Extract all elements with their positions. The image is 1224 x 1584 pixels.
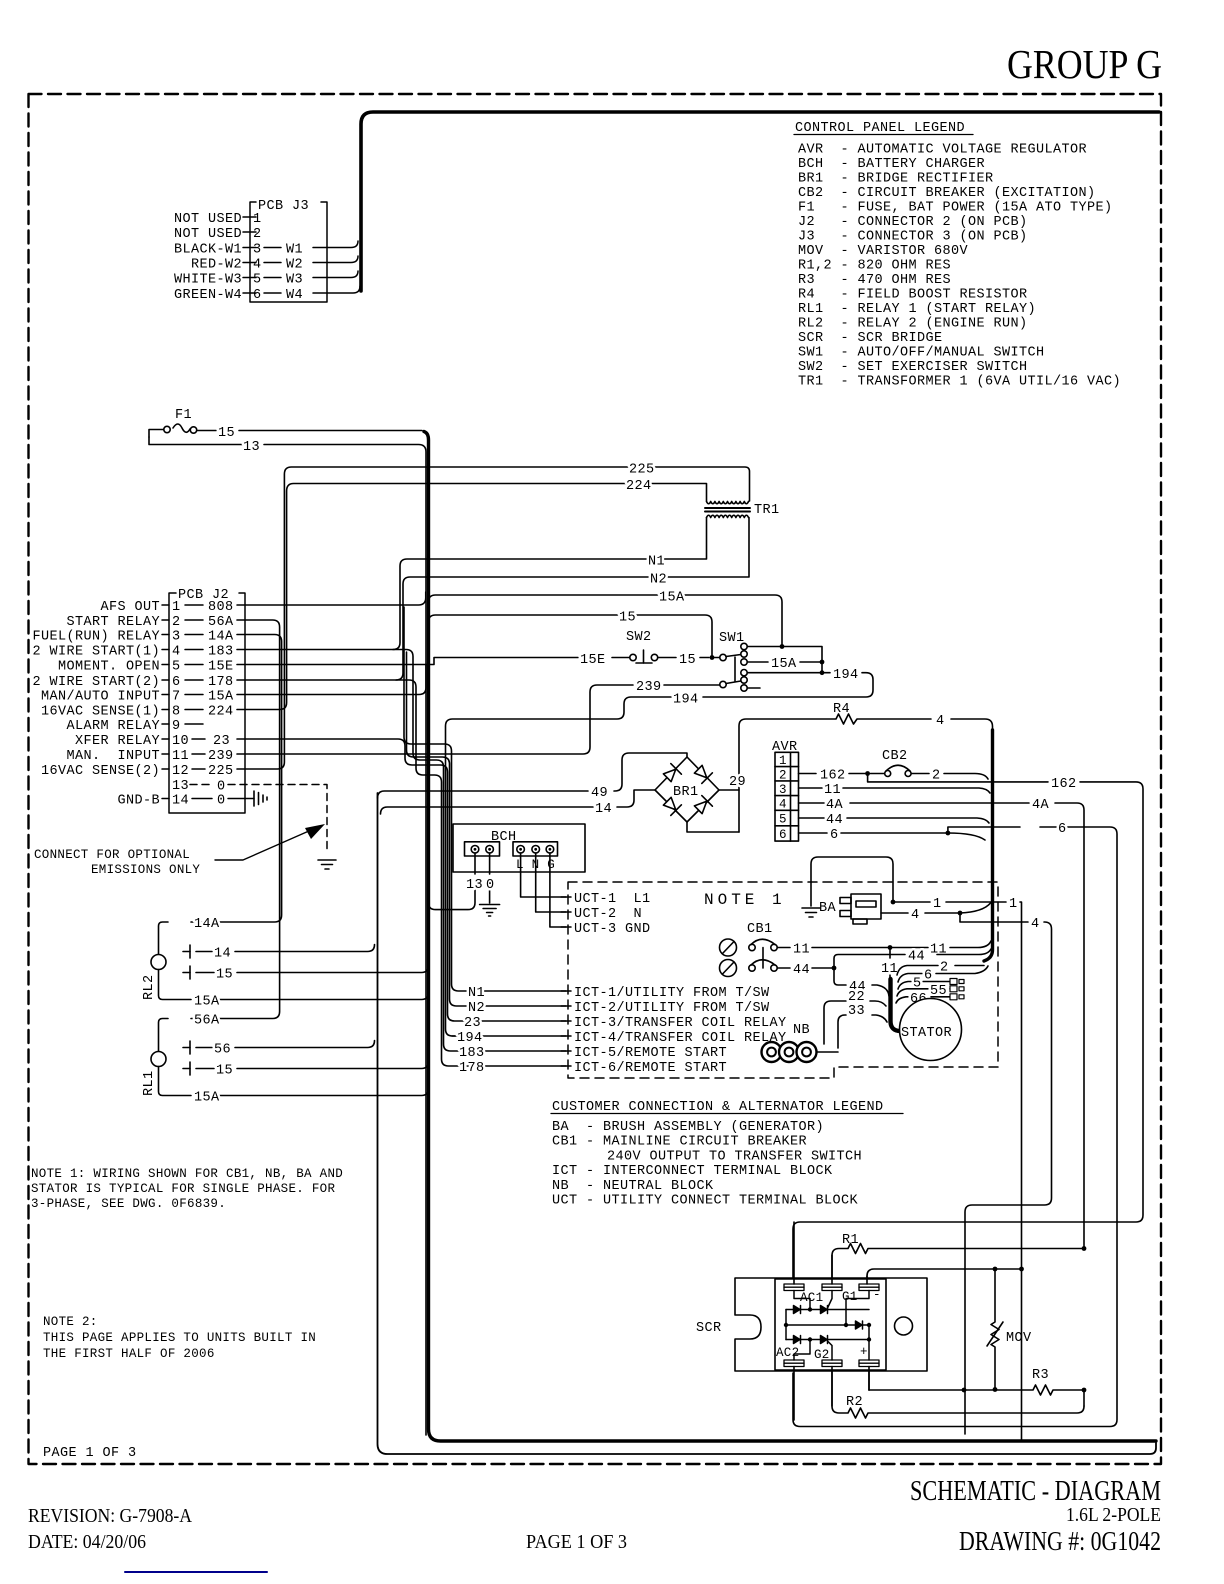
svg-text:4A: 4A bbox=[826, 798, 844, 813]
connector PCB J3 bbox=[174, 199, 327, 303]
wire BR1 bottom to 29 bbox=[687, 822, 739, 832]
svg-text:G1: G1 bbox=[842, 1290, 858, 1304]
svg-text:BCH - BATTERY CHARGER: BCH - BATTERY CHARGER bbox=[798, 157, 985, 172]
SCR pad labels bbox=[776, 1288, 881, 1362]
dashed wire 0 from J2 pin 13 bbox=[190, 780, 327, 853]
svg-text:UCT - UTILITY CONNECT TERMINAL: UCT - UTILITY CONNECT TERMINAL BLOCK bbox=[552, 1194, 859, 1209]
svg-text:BA - BRUSH ASSEMBLY (GENERATO: BA - BRUSH ASSEMBLY (GENERATOR) bbox=[552, 1120, 824, 1135]
svg-text:BLACK-W1: BLACK-W1 bbox=[174, 243, 242, 258]
svg-text:194: 194 bbox=[673, 693, 699, 708]
note 1 label bbox=[704, 891, 786, 909]
svg-text:NOT USED: NOT USED bbox=[174, 212, 242, 227]
svg-text:23: 23 bbox=[464, 1016, 481, 1031]
wire 178 J2 pin6 to ICT-6 bbox=[237, 680, 566, 1076]
svg-text:11: 11 bbox=[881, 962, 898, 977]
SCR internal bridge bbox=[784, 1291, 871, 1361]
svg-text:15: 15 bbox=[218, 426, 235, 441]
svg-text:MOV: MOV bbox=[1006, 1331, 1032, 1346]
fuse F1 bbox=[149, 408, 197, 437]
wire 6 AVR pin6 bbox=[793, 822, 1117, 1427]
svg-text:2 WIRE START(1): 2 WIRE START(1) bbox=[32, 645, 160, 660]
svg-text:14: 14 bbox=[172, 794, 189, 809]
svg-text:4: 4 bbox=[253, 258, 262, 273]
svg-text:TR1: TR1 bbox=[754, 503, 780, 518]
svg-text:START RELAY: START RELAY bbox=[66, 615, 160, 630]
svg-text:14: 14 bbox=[214, 947, 231, 962]
switch SW2 bbox=[626, 630, 709, 668]
svg-text:15A: 15A bbox=[194, 1091, 220, 1106]
svg-text:240V OUTPUT TO TRANSFER SWITCH: 240V OUTPUT TO TRANSFER SWITCH bbox=[607, 1149, 862, 1164]
svg-text:15A: 15A bbox=[771, 657, 797, 672]
wire G2 lead down bbox=[831, 1367, 833, 1407]
wire 22 stator to NB bbox=[824, 990, 886, 1044]
wire W1 bbox=[313, 241, 358, 248]
svg-text:1: 1 bbox=[933, 897, 942, 912]
svg-text:4: 4 bbox=[1031, 917, 1040, 932]
svg-text:ICT - INTERCONNECT TERMINAL BL: ICT - INTERCONNECT TERMINAL BLOCK bbox=[552, 1164, 833, 1179]
terminal ICT-4 bbox=[561, 1031, 787, 1046]
svg-text:3: 3 bbox=[253, 243, 262, 258]
svg-text:14: 14 bbox=[595, 802, 612, 817]
wire 23 J2 pin10 to ICT-3 bbox=[237, 739, 566, 1031]
svg-text:THE FIRST HALF OF 2006: THE FIRST HALF OF 2006 bbox=[43, 1347, 215, 1361]
footer text SCHEMATIC - DIAGRAM bbox=[910, 1476, 1161, 1507]
wire 194 SW1 row4 loop bbox=[446, 668, 874, 1036]
wire W2 bbox=[313, 256, 358, 263]
svg-text:SCR - SCR BRIDGE: SCR - SCR BRIDGE bbox=[798, 331, 943, 346]
svg-text:0: 0 bbox=[217, 794, 226, 809]
svg-text:ICT-5/REMOTE START: ICT-5/REMOTE START bbox=[574, 1046, 727, 1061]
svg-text:RED-W2: RED-W2 bbox=[191, 258, 242, 273]
svg-text:162: 162 bbox=[1051, 777, 1077, 792]
wire 66 stator to plug bbox=[896, 992, 950, 1007]
wire 15E J2 pin5 to SW2 bbox=[237, 653, 629, 668]
svg-text:ICT-1/UTILITY FROM T/SW: ICT-1/UTILITY FROM T/SW bbox=[574, 986, 770, 1001]
svg-text:NB - NEUTRAL BLOCK: NB - NEUTRAL BLOCK bbox=[552, 1179, 714, 1194]
page title GROUP G bbox=[1007, 41, 1162, 87]
wire L to UCT-1 bbox=[521, 853, 566, 897]
wire 49 to BR1 top bbox=[378, 753, 688, 801]
svg-text:15: 15 bbox=[679, 653, 696, 668]
svg-text:239: 239 bbox=[208, 749, 234, 764]
terminal ICT-6 bbox=[561, 1061, 727, 1076]
breaker CB1 bbox=[720, 922, 778, 977]
svg-text:194: 194 bbox=[457, 1031, 483, 1046]
svg-text:R3: R3 bbox=[1032, 1368, 1049, 1383]
svg-text:F1 - FUSE, BAT POWER (15A AT: F1 - FUSE, BAT POWER (15A ATO TYPE) bbox=[798, 201, 1113, 216]
svg-text:SW2: SW2 bbox=[626, 630, 652, 645]
svg-text:5: 5 bbox=[253, 273, 262, 288]
svg-text:R4 - FIELD BOOST RESISTOR: R4 - FIELD BOOST RESISTOR bbox=[798, 288, 1028, 303]
svg-text:13: 13 bbox=[466, 878, 483, 893]
svg-text:CB1: CB1 bbox=[747, 922, 773, 937]
svg-text:+: + bbox=[860, 1345, 868, 1359]
svg-text:11: 11 bbox=[172, 749, 189, 764]
bridge rectifier BR1 bbox=[655, 757, 719, 822]
svg-text:RL2: RL2 bbox=[142, 974, 157, 1000]
svg-text:EMISSIONS ONLY: EMISSIONS ONLY bbox=[91, 863, 200, 877]
terminal ICT-5 bbox=[561, 1046, 727, 1061]
svg-text:0: 0 bbox=[486, 878, 495, 893]
svg-text:5: 5 bbox=[779, 813, 787, 827]
svg-text:44: 44 bbox=[908, 950, 925, 965]
svg-text:3: 3 bbox=[779, 783, 787, 797]
svg-text:14A: 14A bbox=[194, 917, 220, 932]
transformer TR1 bbox=[705, 502, 780, 519]
wire minus lead up bbox=[866, 1276, 868, 1284]
wire 6 stator bbox=[898, 966, 988, 984]
svg-text:MOV - VARISTOR 680V: MOV - VARISTOR 680V bbox=[798, 244, 969, 259]
svg-text:AFS OUT: AFS OUT bbox=[100, 600, 160, 615]
terminal UCT-3 bbox=[561, 922, 651, 937]
svg-text:5: 5 bbox=[172, 660, 181, 675]
wire 44 tee down to stator bbox=[834, 968, 889, 996]
wire 14A J2 pin3 to RL2 bbox=[159, 635, 282, 955]
footer text PAGE 1 OF 3 bbox=[526, 1531, 627, 1553]
svg-text:ICT-4/TRANSFER COIL RELAY: ICT-4/TRANSFER COIL RELAY bbox=[574, 1031, 787, 1046]
svg-text:1: 1 bbox=[1009, 897, 1018, 912]
wire 183 J2 pin4 branch to ICT-5 bbox=[237, 650, 566, 1062]
svg-text:6: 6 bbox=[1058, 822, 1067, 837]
svg-text:GND-B: GND-B bbox=[117, 794, 160, 809]
relay coil RL1 bbox=[142, 1052, 166, 1097]
wire 15A J2 pin7 to bus bbox=[237, 664, 426, 695]
wire 4A AVR pin4 bbox=[799, 798, 1085, 1249]
svg-text:ALARM RELAY: ALARM RELAY bbox=[66, 719, 160, 734]
svg-text:33: 33 bbox=[848, 1004, 865, 1019]
svg-text:3: 3 bbox=[172, 630, 181, 645]
wire 11 CB1 to bundle bbox=[778, 941, 992, 958]
svg-text:RL1: RL1 bbox=[142, 1070, 157, 1096]
svg-text:SW1 - AUTO/OFF/MANUAL SWITCH: SW1 - AUTO/OFF/MANUAL SWITCH bbox=[798, 346, 1045, 361]
wire 33 stator to NB bbox=[838, 1004, 887, 1048]
svg-text:2: 2 bbox=[253, 227, 262, 242]
svg-text:6: 6 bbox=[172, 675, 181, 690]
svg-text:NOTE 1: WIRING SHOWN FOR CB1,: NOTE 1: WIRING SHOWN FOR CB1, NB, BA AND bbox=[31, 1167, 343, 1181]
svg-text:MOMENT. OPEN: MOMENT. OPEN bbox=[58, 660, 160, 675]
resistor R1 bbox=[832, 1233, 1086, 1283]
wire 15 bus to SW1 bbox=[429, 611, 713, 656]
wire 224 bbox=[237, 479, 707, 710]
svg-text:REVISION: G-7908-A: REVISION: G-7908-A bbox=[28, 1505, 192, 1527]
wire G1 lead up bbox=[831, 1255, 833, 1284]
svg-text:13: 13 bbox=[172, 779, 189, 794]
ground optional emissions bbox=[318, 860, 336, 869]
SCR terminal lugs bottom bbox=[784, 1360, 879, 1367]
svg-text:49: 49 bbox=[591, 786, 608, 801]
sheet note PAGE 1 OF 3 bbox=[43, 1446, 137, 1461]
svg-text:CB1 - MAINLINE CIRCUIT BREAKER: CB1 - MAINLINE CIRCUIT BREAKER bbox=[552, 1135, 807, 1150]
svg-text:16VAC SENSE(2): 16VAC SENSE(2) bbox=[41, 764, 160, 779]
svg-text:1: 1 bbox=[253, 212, 262, 227]
svg-text:R3 - 470 OHM RES: R3 - 470 OHM RES bbox=[798, 273, 951, 288]
svg-text:CONNECT FOR OPTIONAL: CONNECT FOR OPTIONAL bbox=[34, 848, 190, 862]
svg-text:CB2: CB2 bbox=[882, 749, 908, 764]
wire BR1 right to 29 bbox=[719, 775, 746, 790]
footer text REVISION: G-7908-A bbox=[28, 1505, 192, 1527]
svg-text:56A: 56A bbox=[194, 1014, 220, 1029]
svg-text:MAN. INPUT: MAN. INPUT bbox=[66, 749, 160, 764]
wire AC1 lead up bbox=[793, 1222, 795, 1284]
wire 15A RL1 coil to bus bbox=[159, 1067, 429, 1106]
svg-text:224: 224 bbox=[626, 479, 652, 494]
svg-text:1: 1 bbox=[779, 754, 787, 768]
resistor R4 bbox=[739, 702, 993, 832]
svg-text:W1: W1 bbox=[286, 243, 303, 258]
svg-text:DRAWING #: 0G1042: DRAWING #: 0G1042 bbox=[959, 1526, 1161, 1556]
svg-text:AC2: AC2 bbox=[776, 1346, 799, 1360]
breaker CB2 bbox=[871, 749, 989, 784]
terminal UCT-1 bbox=[561, 892, 651, 907]
terminal ICT-2 bbox=[561, 1001, 770, 1016]
wire 2 stator to bundle bbox=[897, 961, 984, 976]
SCR module box bbox=[775, 1279, 886, 1370]
wire AC2 lead down bbox=[793, 1367, 795, 1421]
svg-text:XFER RELAY: XFER RELAY bbox=[75, 734, 160, 749]
svg-text:N2: N2 bbox=[650, 573, 667, 588]
svg-text:R1,2 - 820 OHM RES: R1,2 - 820 OHM RES bbox=[798, 259, 951, 274]
svg-text:56: 56 bbox=[214, 1043, 231, 1058]
wire plus lead down bbox=[868, 1367, 870, 1391]
wire N2 bbox=[396, 518, 749, 681]
svg-text:W4: W4 bbox=[286, 288, 303, 303]
svg-text:MAN/AUTO INPUT: MAN/AUTO INPUT bbox=[41, 690, 160, 705]
svg-text:15: 15 bbox=[619, 611, 636, 626]
svg-text:N1: N1 bbox=[468, 986, 485, 1001]
svg-text:194: 194 bbox=[833, 668, 859, 683]
wire 55 stator to plug bbox=[897, 984, 950, 999]
battery charger BCH bbox=[453, 824, 585, 872]
svg-text:UCT-3 GND: UCT-3 GND bbox=[574, 922, 651, 937]
svg-text:W3: W3 bbox=[286, 273, 303, 288]
svg-text:THIS PAGE APPLIES TO UNITS BUI: THIS PAGE APPLIES TO UNITS BUILT IN bbox=[43, 1331, 316, 1345]
svg-text:0: 0 bbox=[217, 780, 226, 795]
svg-text:44: 44 bbox=[793, 963, 810, 978]
note 1 text bbox=[31, 1167, 343, 1211]
wire bottom thick bus bbox=[424, 432, 1156, 1442]
plug terminal 5 bbox=[950, 979, 964, 985]
svg-text:15E: 15E bbox=[580, 653, 606, 668]
svg-text:6: 6 bbox=[253, 288, 262, 303]
note connect for optional emissions only with arrow bbox=[34, 824, 325, 877]
svg-text:162: 162 bbox=[820, 769, 846, 784]
svg-text:PCB J3: PCB J3 bbox=[258, 199, 309, 214]
svg-text:CB2 - CIRCUIT BREAKER (EXCITA: CB2 - CIRCUIT BREAKER (EXCITATION) bbox=[798, 186, 1096, 201]
resistor R2 bbox=[832, 1367, 1084, 1418]
svg-text:F1: F1 bbox=[175, 408, 192, 423]
svg-text:WHITE-W3: WHITE-W3 bbox=[174, 273, 242, 288]
terminal ICT-3 bbox=[561, 1016, 787, 1031]
wire 44 CB1 lower bbox=[778, 963, 837, 978]
footer blue rule bbox=[125, 1571, 267, 1573]
svg-text:6: 6 bbox=[830, 828, 839, 843]
svg-text:224: 224 bbox=[208, 705, 234, 720]
svg-text:11: 11 bbox=[793, 943, 810, 958]
svg-text:AVR - AUTOMATIC VOLTAGE REGUL: AVR - AUTOMATIC VOLTAGE REGULATOR bbox=[798, 143, 1087, 158]
svg-text:8: 8 bbox=[172, 705, 181, 720]
svg-text:SW2 - SET EXERCISER SWITCH: SW2 - SET EXERCISER SWITCH bbox=[798, 360, 1028, 375]
svg-text:RL2 - RELAY 2 (ENGINE RUN): RL2 - RELAY 2 (ENGINE RUN) bbox=[798, 317, 1028, 332]
svg-text:ICT-3/TRANSFER COIL RELAY: ICT-3/TRANSFER COIL RELAY bbox=[574, 1016, 787, 1031]
svg-text:CONTROL PANEL LEGEND: CONTROL PANEL LEGEND bbox=[795, 121, 965, 136]
svg-text:56A: 56A bbox=[208, 615, 234, 630]
stator circle bbox=[900, 999, 962, 1061]
wire 5 stator to plug bbox=[898, 977, 950, 992]
SCR terminal lugs top bbox=[784, 1284, 879, 1291]
svg-text:1: 1 bbox=[172, 600, 181, 615]
connector AVR bbox=[772, 740, 799, 842]
svg-text:RL1 - RELAY 1 (START RELAY): RL1 - RELAY 1 (START RELAY) bbox=[798, 302, 1036, 317]
right bundle thick vertical bbox=[984, 730, 993, 961]
svg-text:PAGE 1 OF 3: PAGE 1 OF 3 bbox=[43, 1446, 137, 1461]
wire 162 branch down from CB2 dot bbox=[793, 774, 1143, 1284]
svg-text:NOTE 1: NOTE 1 bbox=[704, 891, 786, 909]
wire bottom thin return bbox=[378, 793, 1157, 1454]
switch SW1 bbox=[719, 631, 760, 691]
svg-text:J2 - CONNECTOR 2 (ON PCB): J2 - CONNECTOR 2 (ON PCB) bbox=[798, 215, 1028, 230]
svg-text:4A: 4A bbox=[1032, 798, 1050, 813]
plug terminal 55 bbox=[950, 986, 964, 992]
svg-text:NOT USED: NOT USED bbox=[174, 227, 242, 242]
varistor MOV bbox=[987, 1269, 1032, 1392]
svg-text:GREEN-W4: GREEN-W4 bbox=[174, 288, 242, 303]
svg-text:FUEL(RUN) RELAY: FUEL(RUN) RELAY bbox=[32, 630, 160, 645]
neutral block NB bbox=[762, 1023, 839, 1062]
relay contact RL2 15 bbox=[183, 966, 429, 983]
SCR plate outline bbox=[696, 1278, 927, 1371]
svg-text:CUSTOMER CONNECTION & ALTERNAT: CUSTOMER CONNECTION & ALTERNATOR LEGEND bbox=[552, 1100, 884, 1115]
wire 0 BCH to ground bbox=[480, 853, 500, 916]
svg-text:4: 4 bbox=[911, 908, 920, 923]
wire 56A J2 pin2 to RL1 bbox=[159, 620, 280, 1052]
svg-text:BR1 - BRIDGE RECTIFIER: BR1 - BRIDGE RECTIFIER bbox=[798, 172, 994, 187]
wire 13 BCH to bus bbox=[429, 853, 484, 910]
svg-text:29: 29 bbox=[729, 775, 746, 790]
wire 44 AVR pin5 bbox=[799, 813, 990, 828]
svg-text:6: 6 bbox=[779, 828, 787, 842]
svg-text:239: 239 bbox=[636, 680, 662, 695]
svg-text:15A: 15A bbox=[659, 591, 685, 606]
svg-text:BR1: BR1 bbox=[673, 785, 699, 800]
svg-text:J3 - CONNECTOR 3 (ON PCB): J3 - CONNECTOR 3 (ON PCB) bbox=[798, 230, 1028, 245]
svg-text:BA: BA bbox=[819, 901, 837, 916]
wire 13 from F1 bbox=[149, 437, 426, 1435]
svg-text:15A: 15A bbox=[208, 690, 234, 705]
svg-text:-: - bbox=[873, 1288, 881, 1302]
terminal ICT-1 bbox=[561, 986, 770, 1001]
wire N1 bbox=[393, 518, 707, 650]
resistor R3 bbox=[869, 1367, 1086, 1406]
svg-text:N2: N2 bbox=[468, 1001, 485, 1016]
svg-text:W2: W2 bbox=[286, 258, 303, 273]
svg-text:R1: R1 bbox=[842, 1233, 859, 1248]
svg-text:15: 15 bbox=[216, 1064, 233, 1079]
svg-text:NB: NB bbox=[793, 1023, 810, 1038]
svg-text:12: 12 bbox=[172, 764, 189, 779]
svg-text:NOTE 2:: NOTE 2: bbox=[43, 1315, 98, 1329]
wire 11 AVR pin3 bbox=[799, 783, 991, 798]
wire W3 bbox=[313, 271, 358, 278]
svg-text:4: 4 bbox=[172, 645, 181, 660]
svg-text:DATE: 04/20/06: DATE: 04/20/06 bbox=[28, 1531, 146, 1553]
svg-text:TR1 - TRANSFORMER 1 (6VA UTIL: TR1 - TRANSFORMER 1 (6VA UTIL/16 VAC) bbox=[798, 375, 1121, 390]
wire 194 to ICT-4 label bbox=[452, 1031, 566, 1046]
relay coil RL2 bbox=[142, 955, 166, 1001]
svg-text:9: 9 bbox=[172, 719, 181, 734]
svg-text:178: 178 bbox=[208, 675, 234, 690]
svg-text:16VAC SENSE(1): 16VAC SENSE(1) bbox=[41, 705, 160, 720]
stator winding lead bbox=[881, 948, 898, 981]
svg-text:SCR: SCR bbox=[696, 1321, 722, 1336]
svg-text:7: 7 bbox=[172, 690, 181, 705]
wire 4 BA to SCR region bbox=[881, 903, 1052, 1434]
svg-text:STATOR: STATOR bbox=[901, 1026, 952, 1041]
footer text DRAWING #: 0G1042 bbox=[959, 1526, 1161, 1556]
svg-text:23: 23 bbox=[213, 734, 230, 749]
plug terminal 66 bbox=[950, 994, 964, 1000]
wire 15A SW1 row3 bbox=[748, 657, 823, 672]
relay contact RL1 15 bbox=[183, 1062, 429, 1079]
svg-text:808: 808 bbox=[208, 600, 234, 615]
wire W4 bbox=[313, 286, 360, 293]
svg-text:SW1: SW1 bbox=[719, 631, 745, 646]
svg-text:2: 2 bbox=[172, 615, 181, 630]
footer text 1.6L 2-POLE bbox=[1066, 1504, 1161, 1526]
wire 239 J2 pin11 to SW1 bbox=[237, 680, 720, 754]
svg-text:UCT-1 L1: UCT-1 L1 bbox=[574, 892, 651, 907]
svg-text:10: 10 bbox=[172, 734, 189, 749]
wire N2 branch to ICT-2 bbox=[407, 652, 567, 1016]
svg-text:UCT-2 N: UCT-2 N bbox=[574, 907, 642, 922]
svg-text:15: 15 bbox=[216, 968, 233, 983]
svg-text:14A: 14A bbox=[208, 630, 234, 645]
svg-text:2 WIRE START(2): 2 WIRE START(2) bbox=[32, 675, 160, 690]
wire BA top loop to ground bbox=[811, 857, 895, 906]
note 2 text bbox=[43, 1315, 316, 1361]
terminal UCT-2 bbox=[561, 907, 642, 922]
svg-text:3-PHASE, SEE DWG. 0F6839.: 3-PHASE, SEE DWG. 0F6839. bbox=[31, 1197, 226, 1211]
svg-text:44: 44 bbox=[826, 813, 843, 828]
wire 15 from F1 bbox=[197, 426, 422, 441]
control panel legend bbox=[794, 121, 1121, 390]
connector PCB J2 bbox=[169, 588, 245, 813]
svg-text:GROUP G: GROUP G bbox=[1007, 41, 1162, 87]
wire 14 to BR1 left bbox=[381, 790, 656, 817]
svg-text:178: 178 bbox=[459, 1061, 485, 1076]
wire N1 branch to ICT-1 bbox=[404, 607, 566, 1001]
wire SW1 row1 bbox=[748, 644, 825, 673]
wire W bundle top bus bbox=[361, 112, 1159, 291]
wire 1 to SCR minus and MOV bbox=[867, 1267, 1024, 1283]
customer connection and alternator legend bbox=[551, 1100, 903, 1209]
svg-text:ICT-2/UTILITY FROM T/SW: ICT-2/UTILITY FROM T/SW bbox=[574, 1001, 770, 1016]
footer text DATE: 04/20/06 bbox=[28, 1531, 146, 1553]
junction 15 at SW1 bbox=[710, 655, 720, 660]
svg-text:G2: G2 bbox=[814, 1348, 830, 1362]
ground at J2 pin 14 bbox=[254, 791, 267, 806]
svg-text:225: 225 bbox=[208, 764, 234, 779]
note 1 dashed box bbox=[568, 882, 998, 1078]
svg-text:15A: 15A bbox=[194, 995, 220, 1010]
svg-text:2: 2 bbox=[779, 769, 787, 783]
relay contact RL2 14 bbox=[183, 945, 375, 962]
svg-text:N1: N1 bbox=[648, 555, 665, 570]
wire 1 BA to SCR minus bbox=[893, 897, 1022, 1440]
wire 225 bbox=[237, 463, 750, 770]
svg-text:4: 4 bbox=[936, 714, 945, 729]
svg-text:PAGE 1 OF 3: PAGE 1 OF 3 bbox=[526, 1531, 627, 1553]
wire G to UCT-3 bbox=[550, 853, 566, 927]
